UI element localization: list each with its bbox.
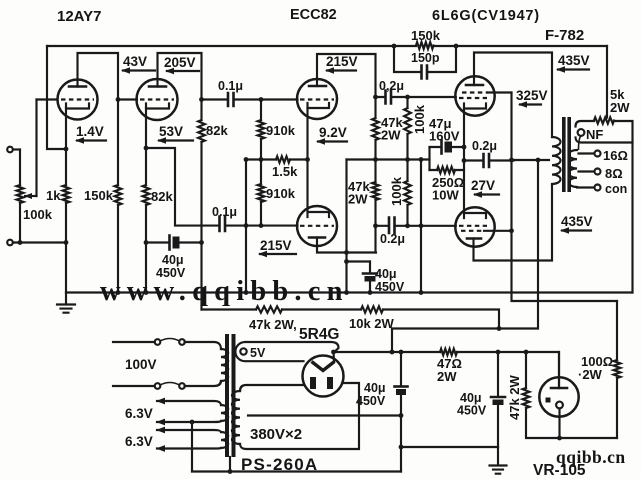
wire B+ 205V row (202, 310, 500, 329)
svg-text:12AY7: 12AY7 (57, 8, 102, 25)
svg-text:150k: 150k (84, 188, 114, 203)
node feedback to cathode (64, 147, 69, 152)
node bus 346.5 (344, 290, 349, 295)
fuse upper (155, 339, 161, 345)
resistor 47k 2W (bottom) (256, 306, 282, 312)
svg-text:10W: 10W (432, 188, 459, 203)
svg-text:8Ω: 8Ω (605, 166, 623, 181)
svg-text:910k: 910k (266, 123, 296, 138)
node plate-0.1u (199, 97, 204, 102)
capacitor 47u 160V (428, 147, 430, 170)
resistor 47k 2W (lower) (374, 160, 376, 183)
resistor 10k 2W (361, 306, 383, 312)
resistor 910k lower (258, 184, 265, 202)
wire HV center tap (248, 414, 401, 416)
svg-text:53V: 53V (159, 124, 183, 139)
svg-text:325V: 325V (516, 88, 548, 103)
capacitor 40u 450V (front B+) (146, 241, 202, 243)
svg-text:100k: 100k (389, 176, 404, 206)
wire ground link 447 (401, 446, 498, 448)
svg-text:2W: 2W (437, 369, 457, 384)
svg-text:215V: 215V (260, 238, 292, 253)
node pot bottom (18, 240, 23, 245)
pentode 6L6 lower (inverted) (455, 207, 494, 246)
wire 6L6b plate to OPT (474, 185, 553, 261)
svg-text:NF: NF (586, 127, 603, 142)
wire 6L6a screen to screen line (488, 91, 512, 93)
capacitor 0.2u upper (376, 96, 456, 98)
terminal 16ohm (579, 152, 595, 154)
resistor 100k upper (grid) (406, 97, 408, 108)
wire feedback drop to V1a cathode (47, 46, 66, 149)
svg-text:100k: 100k (412, 104, 427, 134)
node 392 (390, 350, 395, 355)
node 910k mid (259, 157, 264, 162)
wire bottom bus psu (192, 470, 401, 472)
wire 6L6a plate to OPT (474, 53, 552, 138)
wire 5V B+ line (334, 352, 560, 388)
wire 1k to ground bus (65, 203, 67, 293)
wire pot bottom (19, 203, 21, 243)
wire B+ 328 row (392, 160, 538, 329)
wire heater ct to bus (191, 422, 193, 472)
node bus 246 (244, 290, 249, 295)
transformer F-782 primary (552, 137, 561, 184)
svg-text:450V: 450V (457, 404, 487, 418)
svg-text:ECC82: ECC82 (290, 7, 337, 23)
svg-text:5R4G: 5R4G (299, 326, 340, 343)
ground symbol main (65, 293, 67, 305)
terminal input gnd (7, 240, 13, 246)
wire V2a plate over to 47k (317, 54, 376, 118)
wire V2 cathodes common (306, 108, 308, 212)
capacitor 0.2u screen (464, 159, 514, 161)
node bus 370 (368, 290, 373, 295)
capacitor 40u450V (decouple mid) (369, 262, 371, 293)
wire pot wiper riser (35, 100, 37, 197)
node junction rail-150p right (454, 44, 459, 49)
svg-text:2W: 2W (610, 100, 630, 115)
terminal con (577, 186, 594, 188)
terminal NF tap (578, 129, 585, 136)
primary 100V winding (221, 349, 228, 381)
resistor 82k (cathode) (143, 185, 150, 205)
node bus 421 (419, 290, 424, 295)
svg-text:1.4V: 1.4V (76, 124, 104, 139)
wire NF return down right edge (631, 143, 633, 293)
wire 421 drop (420, 160, 422, 293)
node V2a plate cap (373, 95, 378, 100)
wire core to bus (229, 457, 231, 472)
wire plate node down (117, 100, 119, 186)
transformer PS-260A core (225, 334, 229, 457)
svg-text:2W: 2W (381, 128, 401, 143)
node spur 40u (344, 259, 349, 264)
wire V1b plate up and over to 82k (158, 53, 202, 120)
svg-text:0.1μ: 0.1μ (212, 205, 237, 219)
svg-text:27V: 27V (471, 178, 495, 193)
node 0.2u lower left (373, 223, 378, 228)
wire V1b cathode (146, 109, 218, 226)
node input gnd to 1k line (64, 240, 69, 245)
svg-text:435V: 435V (561, 214, 593, 229)
svg-text:40μ: 40μ (375, 267, 397, 281)
wire 6L6b screen (484, 230, 512, 232)
wire ground bus (66, 291, 633, 293)
resistor 1.5k (276, 156, 290, 162)
wire 205V line down to B+ row (200, 142, 202, 310)
node junction rail-150p left (392, 44, 397, 49)
svg-text:9.2V: 9.2V (319, 125, 347, 140)
winding 5V hairpin (235, 342, 338, 361)
node screen cap junction (509, 158, 514, 163)
resistor 150k (feedback) (416, 42, 434, 49)
svg-text:150k: 150k (411, 28, 441, 43)
svg-text:0,2μ: 0,2μ (379, 79, 404, 93)
svg-text:82k: 82k (206, 123, 228, 138)
triode V2a (ECC82 upper) (297, 79, 337, 119)
wire pot top (19, 150, 21, 186)
svg-text:150p: 150p (411, 51, 440, 65)
wire feedback rail top (47, 45, 607, 47)
ground symbol psu (497, 447, 499, 465)
svg-text:1k: 1k (46, 188, 61, 203)
regulator VR-105 (539, 377, 578, 416)
resistor 5k 2W (606, 46, 608, 118)
resistor 47ohm 2W (440, 349, 457, 355)
svg-text:10k 2W: 10k 2W (349, 316, 395, 331)
capacitor 0.2u lower (376, 225, 456, 227)
svg-text:16Ω: 16Ω (603, 148, 628, 163)
svg-text:160V: 160V (429, 129, 460, 144)
resistor 100ohm 2W (616, 301, 618, 360)
wire screen line (512, 93, 618, 302)
svg-text:100k: 100k (23, 207, 53, 222)
resistor 150k (V1a load) (115, 185, 122, 205)
wire center tap line (514, 159, 550, 161)
resistor 82k (plate) (198, 120, 205, 142)
svg-text:40μ: 40μ (162, 253, 184, 267)
HV winding 380Vx2 (232, 391, 240, 444)
svg-text:6L6G(CV1947): 6L6G(CV1947) (432, 8, 540, 24)
resistor 910k upper (260, 100, 262, 121)
svg-text:435V: 435V (558, 53, 590, 68)
triode V2b (ECC82 lower, inverted) (297, 206, 337, 246)
pentode 6L6 upper (455, 76, 494, 115)
node bus 118 (116, 290, 121, 295)
svg-text:·2W: ·2W (578, 367, 603, 382)
node V1a plate / V1b grid (116, 97, 121, 102)
rectifier 5R4G (303, 356, 344, 397)
resistor 47k 2W (VR feed) (524, 350, 529, 355)
svg-text:1.5k: 1.5k (272, 164, 298, 179)
terminal 8ohm (579, 170, 595, 172)
resistor 100k lower (grid) (404, 181, 411, 205)
svg-text:100V: 100V (125, 357, 157, 372)
wire V1a plate to V1b grid node (78, 53, 119, 100)
capacitor 40u 450V (filter2) (497, 352, 499, 447)
capacitor 0.1u upper coupling (202, 98, 298, 100)
wire summing node line (347, 158, 430, 160)
transformer F-782 secondary (569, 150, 577, 187)
svg-text:380V×2: 380V×2 (250, 426, 302, 443)
svg-text:82k: 82k (151, 189, 173, 204)
heater winding 6.3V a (221, 405, 228, 421)
svg-text:450V: 450V (356, 394, 386, 408)
triode V1a (12AY7 a) (58, 80, 98, 120)
capacitor 150p (parallel) (394, 46, 456, 72)
svg-text:40μ: 40μ (364, 381, 386, 395)
wire 246 drop to ground bus (245, 160, 247, 293)
svg-text:215V: 215V (326, 54, 358, 69)
node 910k top (259, 97, 264, 102)
svg-text:0.2μ: 0.2μ (380, 232, 405, 246)
svg-text:43V: 43V (123, 54, 147, 69)
potentiometer 100k (17, 185, 24, 203)
svg-text:qqibb.cn: qqibb.cn (556, 447, 626, 467)
svg-text:6.3V: 6.3V (125, 434, 153, 449)
svg-text:47k 2W: 47k 2W (507, 374, 522, 420)
node 47k2 top (373, 157, 378, 162)
resistor 250ohm 10W (430, 169, 465, 171)
capacitor 40u 450V (reservoir) (400, 352, 402, 472)
resistor 1k (63, 185, 70, 203)
wire V2b plate row (317, 238, 376, 253)
node 910k bottom on grid wire (259, 223, 264, 228)
wire V1a grid (37, 98, 58, 100)
svg-text:0.2μ: 0.2μ (472, 139, 497, 153)
wire V1a cathode (65, 109, 67, 186)
wire 346 ground drop (345, 160, 347, 293)
terminal input hot (7, 147, 13, 153)
transformer F-782 core (562, 117, 566, 192)
fuse lower (155, 383, 161, 389)
svg-text:0.1μ: 0.1μ (218, 79, 243, 93)
wire NF loop (576, 121, 633, 143)
svg-text:5V: 5V (250, 346, 266, 360)
triode V1b (12AY7 b, cathodyne) (137, 79, 178, 120)
node plate row crossing (344, 250, 349, 255)
wire 6L6 cathode line (463, 109, 465, 214)
resistor 47k 2W (upper plate load) (372, 118, 379, 140)
wire node line with 1.5k (246, 158, 308, 160)
heater winding 6.3V b (221, 432, 228, 448)
svg-text:205V: 205V (164, 55, 196, 70)
svg-text:con: con (605, 182, 627, 196)
svg-text:6.3V: 6.3V (125, 406, 153, 421)
capacitor 0.1u lower coupling (220, 217, 226, 232)
wire V1b grid (118, 98, 137, 100)
svg-text:2W: 2W (348, 192, 368, 207)
node cathode-82k (144, 146, 149, 151)
svg-text:F-782: F-782 (545, 27, 584, 44)
svg-text:910k: 910k (266, 186, 296, 201)
svg-text:47k 2W,: 47k 2W, (249, 317, 297, 332)
node bus 146 (144, 290, 149, 295)
svg-text:www.qqibb.cn: www.qqibb.cn (100, 276, 349, 307)
